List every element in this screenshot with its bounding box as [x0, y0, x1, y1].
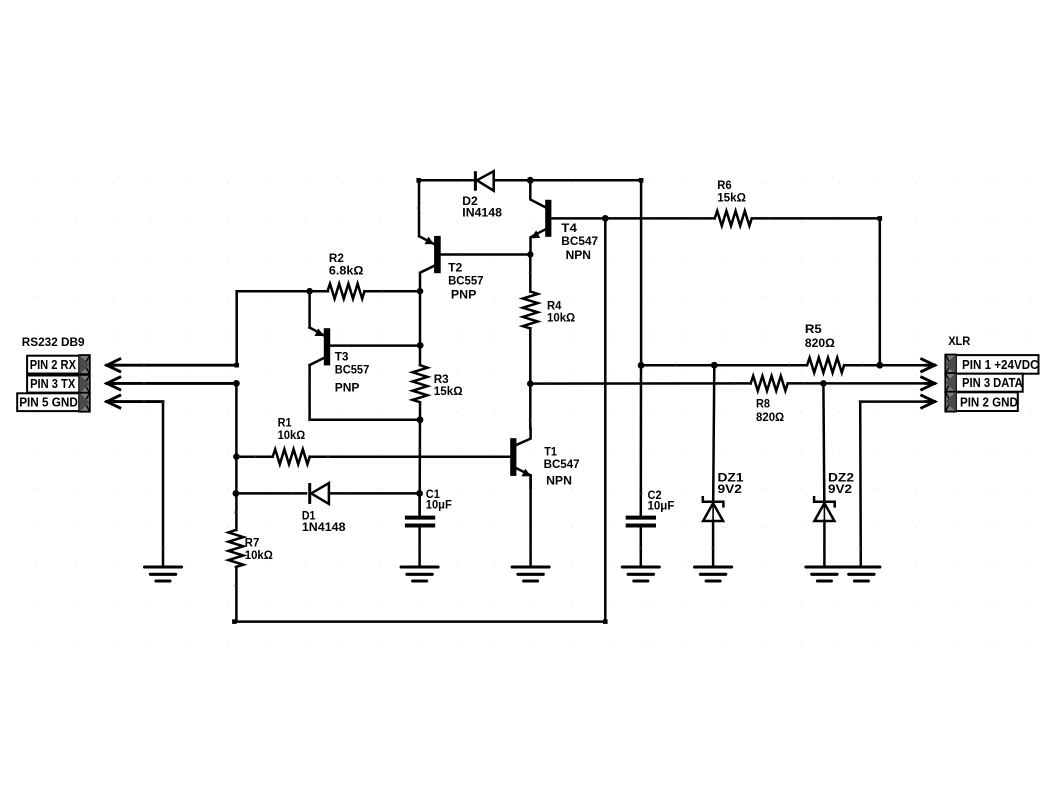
label T3	[335, 350, 370, 395]
svg-text:10kΩ: 10kΩ	[547, 311, 575, 325]
svg-text:IN4148: IN4148	[462, 206, 502, 220]
svg-text:XLR: XLR	[948, 334, 970, 348]
arrow into XLR PIN 3 DATA	[922, 377, 935, 389]
node PIN 1 +24VDC box	[945, 355, 1039, 375]
wire TX node to R1 (left)	[233, 453, 273, 460]
label R6	[717, 178, 746, 205]
svg-text:15kΩ: 15kΩ	[717, 191, 746, 205]
wire R2 right to T2 collector node	[365, 288, 424, 295]
label R3	[434, 372, 463, 398]
svg-text:BC547: BC547	[544, 457, 580, 471]
label R2	[329, 251, 364, 277]
wire DZ2 rail from DATA node down	[822, 383, 825, 500]
resistor R6 15k (horizontal)	[715, 211, 752, 226]
wire T4 emitter node to R4	[529, 255, 532, 292]
svg-text:10μF: 10μF	[426, 498, 452, 512]
wire T3 base to R3 top node	[329, 342, 423, 349]
ground (DZ1)	[695, 567, 732, 581]
label T4	[561, 221, 598, 262]
resistor R2 6.8k (horizontal)	[310, 284, 365, 299]
wire R5 right to corner node to XLR PIN 1	[844, 364, 931, 367]
node PIN 2 RX box	[27, 355, 90, 374]
arrow into XLR PIN 2 GND	[922, 395, 935, 407]
label DZ1	[718, 471, 744, 496]
capacitor C1 10uF	[405, 518, 435, 566]
node RS232 DB9 connector label	[22, 335, 85, 349]
svg-text:10kΩ: 10kΩ	[278, 428, 306, 442]
node PIN 2 GND box	[945, 392, 1018, 412]
resistor R5 820 (horizontal)	[807, 358, 844, 373]
label R7	[245, 535, 273, 562]
node PIN 3 TX box	[27, 375, 90, 393]
wire top rail: T2 emitter corner to D2 to top-right corner	[416, 177, 643, 366]
node PIN 3 DATA box	[945, 373, 1023, 392]
wire R1 to T1 base	[310, 455, 511, 458]
svg-text:10kΩ: 10kΩ	[245, 548, 273, 562]
svg-text:RS232 DB9: RS232 DB9	[22, 335, 85, 349]
wire T1 emitter to ground	[529, 475, 532, 565]
ground (DZ2)	[806, 567, 843, 581]
arrow into PIN 2 RX	[107, 359, 120, 371]
ground (XLR PIN 2)	[843, 567, 880, 581]
wire TX node to D1 (left)	[233, 490, 307, 497]
arrow into XLR PIN 1 +24VDC	[922, 359, 935, 371]
wire T4 base to R6 left	[552, 215, 715, 222]
diode D2 IN4148	[475, 171, 493, 191]
wire x420 rail R2-node to T3-base node	[419, 291, 422, 345]
transistor T4 BC547 NPN	[530, 180, 551, 254]
ground (T1 emitter)	[512, 567, 549, 581]
svg-text:PIN 2 GND: PIN 2 GND	[960, 394, 1018, 409]
label R4	[547, 298, 575, 324]
wire T2 base to T4 emitter node	[439, 251, 533, 257]
wire DATA net: T1 collector node to R8 left	[530, 382, 750, 385]
wire R7 bottom to bottom rail and up to T4 base rail	[232, 218, 607, 623]
svg-text:10μF: 10μF	[648, 498, 675, 512]
wire R4 bottom to T1 collector / DATA node	[527, 328, 534, 428]
svg-text:NPN: NPN	[566, 248, 592, 262]
svg-text:BC557: BC557	[448, 273, 484, 287]
resistor R7 10k (vertical)	[228, 530, 243, 567]
label T1	[544, 444, 580, 487]
ground (C1)	[401, 567, 438, 581]
svg-text:R8: R8	[756, 397, 770, 411]
svg-text:820Ω: 820Ω	[756, 410, 784, 424]
transistor T3 BC557 PNP	[310, 328, 331, 366]
wire C1 node down	[418, 493, 421, 515]
wire DZ1 rail from +24V node down	[712, 365, 715, 500]
label C1	[426, 487, 452, 512]
resistor R1 10k (horizontal)	[273, 449, 310, 464]
label R5	[805, 322, 835, 350]
label R8	[756, 397, 784, 425]
svg-text:BC557: BC557	[335, 362, 370, 376]
resistor R3 15k (vertical)	[413, 365, 428, 402]
wire +24V net: C2 node to DZ1 node to R5	[638, 362, 807, 369]
zener diode DZ2 9V2	[814, 497, 835, 565]
svg-text:820Ω: 820Ω	[805, 336, 835, 350]
svg-text:9V2: 9V2	[828, 482, 852, 496]
svg-text:R5: R5	[805, 322, 822, 336]
label D1	[302, 509, 346, 535]
wire T3 emitter from RX node	[308, 291, 311, 327]
label D2	[462, 194, 502, 219]
wire PIN 2 RX to R2/T3 node (RX net)	[107, 291, 310, 367]
resistor R4 10k (vertical)	[523, 291, 538, 328]
wire C2 rail from +24V node down	[640, 365, 643, 515]
wire XLR PIN 2 GND line to ground	[859, 400, 932, 565]
wire D1 to C1/T3-collector node	[329, 490, 423, 497]
svg-text:PNP: PNP	[335, 380, 360, 394]
zener diode DZ1 9V2	[703, 497, 724, 565]
svg-text:PIN 5 GND: PIN 5 GND	[19, 395, 78, 410]
svg-text:PNP: PNP	[451, 288, 477, 302]
wire PIN 5 GND to ground	[107, 400, 164, 565]
wire PIN 3 TX down left rail (TX net)	[107, 380, 240, 530]
svg-text:PIN 3 DATA: PIN 3 DATA	[962, 375, 1023, 390]
label DZ2	[828, 471, 854, 496]
svg-text:15kΩ: 15kΩ	[434, 384, 463, 398]
label T2	[448, 261, 484, 302]
svg-text:PIN 2 RX: PIN 2 RX	[30, 357, 77, 372]
arrow into PIN 3 TX	[107, 377, 120, 389]
wire R3 bottom to T3-collector node to C1	[418, 403, 421, 515]
label C2	[648, 488, 675, 512]
svg-text:PIN 1 +24VDC: PIN 1 +24VDC	[962, 357, 1039, 372]
transistor T1 BC547 NPN	[510, 429, 531, 488]
ground (C2)	[622, 567, 659, 581]
svg-text:NPN: NPN	[546, 474, 572, 488]
svg-text:1N4148: 1N4148	[302, 520, 346, 534]
transistor T2 BC557 PNP	[419, 236, 440, 291]
resistor R8 820 (horizontal)	[751, 376, 788, 391]
wire RX node to R2 left / junction	[306, 288, 313, 295]
capacitor C2 10uF	[626, 518, 656, 566]
wire T3 collector down and right to x420 rail	[308, 365, 423, 423]
node PIN 5 GND box	[17, 393, 90, 412]
svg-text:PIN 3 TX: PIN 3 TX	[30, 376, 75, 391]
wire T3-base node to R3	[419, 346, 422, 365]
svg-text:9V2: 9V2	[718, 482, 743, 496]
wire R6 right to corner down to +24V line	[752, 216, 883, 369]
label R1	[278, 416, 306, 443]
svg-text:6.8kΩ: 6.8kΩ	[329, 263, 364, 277]
wire R8 right to DZ2 node to XLR PIN 3 DATA	[788, 380, 932, 387]
ground (RS232 PIN 5)	[145, 567, 182, 581]
arrow into PIN 5 GND	[107, 395, 120, 407]
node XLR connector label	[948, 334, 970, 348]
svg-text:BC547: BC547	[561, 234, 598, 248]
diode D1 1N4148	[310, 483, 329, 504]
